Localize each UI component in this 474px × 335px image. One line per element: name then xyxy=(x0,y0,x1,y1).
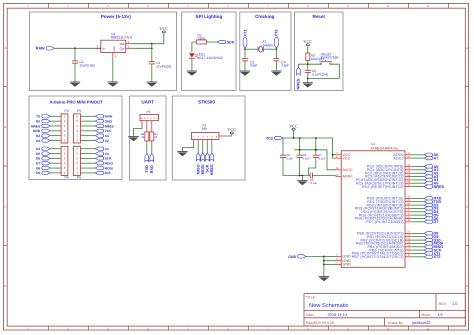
wire P5 to flag xyxy=(81,115,83,117)
wire P2 to R1 xyxy=(151,121,153,132)
pin 14 PB2 (PCINT2/SS/OC1B) xyxy=(361,237,412,242)
pin 17 PB5 (SCK/PCINT5) xyxy=(369,247,411,252)
wire LED to ground xyxy=(191,58,193,71)
pin 4 VCC left xyxy=(336,152,351,157)
net flag D7 mcu xyxy=(424,220,438,224)
header P1 SPI xyxy=(192,124,219,140)
svg-text:A3: A3 xyxy=(105,134,109,138)
ground STK500 xyxy=(177,152,187,157)
wire R2 to SCK flag xyxy=(206,41,217,43)
net flag D6 mcu xyxy=(424,217,438,221)
op-amp U1 ATMEGA48PA-AU chip body xyxy=(341,142,405,267)
junction XT2 node xyxy=(276,48,278,50)
ground below C1 xyxy=(147,82,157,87)
wire flag to P3 xyxy=(50,130,59,132)
pin 15 PB3 (PCINT3/OC2A/MOSI) xyxy=(356,241,412,246)
pin 27 PC4 (ADC4/SDA/PCINT12) xyxy=(356,177,412,182)
ground below LED1 xyxy=(187,71,197,76)
svg-text:P3: P3 xyxy=(65,109,69,113)
svg-text:D7: D7 xyxy=(36,162,40,166)
svg-text:NRES: NRES xyxy=(434,185,445,189)
wire pin 31 to flag xyxy=(412,201,425,203)
wire P5 to flag xyxy=(81,135,83,137)
net flag TX pinout xyxy=(36,115,50,119)
wire pin 29 to flag xyxy=(412,186,425,188)
svg-text:TITLE:: TITLE: xyxy=(306,296,316,300)
pin 11 PD7 (PCINT23/AIN1) xyxy=(366,219,411,224)
wire pin 30 to flag xyxy=(412,197,425,199)
pin 13 PB1 (PCINT1/OC1A) xyxy=(367,234,412,239)
ground UART xyxy=(128,137,138,142)
svg-text:PC6 (RESET/PCINT14): PC6 (RESET/PCINT14) xyxy=(362,185,404,189)
wire P1 to SCK xyxy=(206,140,208,153)
wire XT1 down xyxy=(244,48,246,49)
resistor R1 1k xyxy=(150,132,159,141)
capacitor C2 xyxy=(72,48,95,82)
ground reset xyxy=(303,83,313,88)
net flag VCC mcu xyxy=(266,136,283,140)
svg-text:D9: D9 xyxy=(36,171,40,175)
svg-text:NRES: NRES xyxy=(31,124,41,128)
net flag D3 mcu xyxy=(424,207,438,211)
net flag D5 mcu xyxy=(424,213,438,217)
net flag GND mcu xyxy=(288,255,306,259)
pin 20 AREF left xyxy=(335,174,353,179)
net flag A7 mcu xyxy=(424,156,438,160)
svg-text:D6: D6 xyxy=(36,157,40,161)
net flag A6 mcu xyxy=(424,153,438,157)
net flag RXD mcu xyxy=(424,197,442,201)
capacitor C8 0.1uF xyxy=(280,138,293,176)
junction Out rail xyxy=(151,47,153,49)
wire pin 26 to flag xyxy=(412,176,425,178)
VCC symbol STK500 xyxy=(227,127,236,134)
wire NRES to node xyxy=(297,64,299,67)
net flag XT2 mcu xyxy=(424,255,440,259)
svg-text:NRES: NRES xyxy=(296,78,301,89)
wire flag to P3 xyxy=(50,120,59,122)
wire P2 pin1 to ground xyxy=(134,121,143,137)
svg-text:22pF: 22pF xyxy=(281,64,289,68)
wire bottom to ground xyxy=(307,79,309,83)
net flag NRES mcu xyxy=(424,185,444,189)
svg-text:P4: P4 xyxy=(65,176,69,180)
svg-text:AVCC: AVCC xyxy=(343,168,354,172)
header P4 xyxy=(61,146,69,179)
wire C1 branch xyxy=(151,44,153,62)
net flag A3 pinout xyxy=(95,134,109,138)
svg-text:2018-11-13: 2018-11-13 xyxy=(328,312,348,317)
wire GND vertical xyxy=(323,256,325,276)
wire P5 to flag xyxy=(81,140,83,142)
pin 25 PC2 (ADC2/PCINT10) xyxy=(365,171,412,176)
svg-text:XT1: XT1 xyxy=(242,29,247,37)
svg-text:RAW: RAW xyxy=(105,115,114,119)
net flag D8 pinout xyxy=(36,166,50,170)
svg-text:C: C xyxy=(466,205,468,209)
net flag GND pinout xyxy=(33,129,50,133)
net flag D2 mcu xyxy=(424,203,438,207)
svg-text:HG17-2102SYGC: HG17-2102SYGC xyxy=(197,56,224,60)
svg-text:0.1uF: 0.1uF xyxy=(319,156,326,160)
svg-text:D10: D10 xyxy=(105,171,111,175)
wire crystal left xyxy=(245,48,257,50)
section box Power xyxy=(30,12,177,91)
svg-text:A: A xyxy=(466,46,468,50)
junction node at R3 xyxy=(307,63,309,65)
junction ground stem mcu xyxy=(302,175,304,177)
ground below C3 xyxy=(240,71,250,76)
wire pin 23 to flag xyxy=(412,166,425,168)
svg-text:A1: A1 xyxy=(105,147,109,151)
svg-text:VCC: VCC xyxy=(105,129,113,133)
wire P6 to flag xyxy=(81,162,83,164)
net flag RX pinout xyxy=(36,119,51,123)
svg-text:EasyEDA V5.9.20: EasyEDA V5.9.20 xyxy=(306,321,334,325)
junction C7 top xyxy=(315,137,317,139)
svg-text:D: D xyxy=(4,284,6,288)
svg-text:VCC: VCC xyxy=(159,26,168,31)
resistor R2 330 xyxy=(196,33,206,44)
junction AVCC rail C7 xyxy=(315,149,317,151)
net flag A2 pinout xyxy=(95,139,109,143)
title block xyxy=(304,294,465,327)
junction XT1 node xyxy=(244,48,246,50)
svg-text:Drawn By:: Drawn By: xyxy=(388,321,404,325)
ground mcu rail xyxy=(297,176,307,186)
svg-text:Clocking: Clocking xyxy=(255,14,275,19)
wire TAB output rail xyxy=(131,43,152,45)
pin 30 PD0 (RXD/PCINT16) xyxy=(367,196,412,201)
net flag D7 pinout xyxy=(36,162,50,166)
wire VCC to R3 xyxy=(307,46,309,53)
section box UART xyxy=(129,96,166,180)
ground below C9 xyxy=(271,71,281,76)
wire RAW to regulator input xyxy=(55,47,101,49)
svg-text:MOSI: MOSI xyxy=(105,166,114,170)
svg-text:0.1uF: 0.1uF xyxy=(303,156,310,160)
pin 24 PC1 (ADC1/PCINT9) xyxy=(367,167,412,172)
wire flag to P4 xyxy=(50,153,59,155)
svg-text:P6: P6 xyxy=(77,176,81,180)
svg-text:22uF(226): 22uF(226) xyxy=(156,64,171,68)
net flag A1 mcu xyxy=(424,168,438,172)
LED LED1 xyxy=(189,52,224,59)
wire VCC rail xyxy=(283,137,333,139)
net flag MISO stk500 xyxy=(196,153,201,175)
svg-text:B: B xyxy=(466,125,468,129)
wire flag to P4 xyxy=(50,148,59,150)
svg-text:VCC: VCC xyxy=(303,39,312,44)
wire R1 to RXD flag xyxy=(151,141,153,154)
resistor R3 10k xyxy=(306,53,324,61)
svg-text:VCC: VCC xyxy=(343,156,351,160)
wire pin 7 to flag xyxy=(412,253,425,255)
wire pin 2 to flag xyxy=(412,211,425,213)
net flag D4 mcu xyxy=(424,210,439,214)
section box Reset xyxy=(295,12,344,91)
net flag MOSI stk500 xyxy=(200,153,205,175)
net flag D4 pinout xyxy=(36,147,50,151)
net flag VCC pinout xyxy=(95,129,112,133)
pin 5 GND left xyxy=(336,258,352,263)
pin 2 PD4 (PCINT20/XCK/T0) xyxy=(361,209,411,214)
capacitor C6 0.1uF xyxy=(305,64,328,78)
svg-text:SPI Lighting: SPI Lighting xyxy=(196,14,223,19)
wire node row xyxy=(298,63,320,65)
junction VCC pin4 xyxy=(332,154,334,156)
pin 22 ADC7 xyxy=(393,155,411,160)
wire P6 to flag xyxy=(81,153,83,155)
svg-text:0.1uF(104): 0.1uF(104) xyxy=(312,73,328,77)
wire flag to P4 xyxy=(50,172,59,174)
wire P2 to R4 xyxy=(146,121,148,132)
pin 21 GND left xyxy=(335,262,351,267)
junction C4 bottom xyxy=(299,175,301,177)
wire flag to P4 xyxy=(50,157,59,159)
wire flag to P4 xyxy=(50,167,59,169)
net flag A0 pinout xyxy=(95,152,109,156)
svg-text:Date:: Date: xyxy=(306,313,314,317)
svg-text:P5: P5 xyxy=(77,109,81,113)
svg-text:Out: Out xyxy=(120,47,125,51)
section box Clocking xyxy=(240,12,291,91)
svg-text:New Schematic: New Schematic xyxy=(309,302,349,309)
wire pin 14 to flag xyxy=(412,239,425,241)
wire Out to junction xyxy=(131,47,152,49)
junction on RAW wire at C2 xyxy=(74,47,76,49)
VCC symbol power out xyxy=(159,26,168,33)
svg-text:AREF: AREF xyxy=(343,175,354,179)
wire pin 24 to flag xyxy=(412,169,425,171)
net flag NRES pinout xyxy=(31,124,50,128)
VCC symbol reset xyxy=(303,39,312,46)
svg-text:Power (5-12v): Power (5-12v) xyxy=(101,14,131,19)
svg-text:Reset: Reset xyxy=(312,14,325,19)
capacitor C9 22pF xyxy=(273,49,289,71)
svg-text:SPI: SPI xyxy=(202,127,207,131)
wire XT2 down xyxy=(275,48,277,49)
svg-text:D5: D5 xyxy=(36,152,40,156)
wire to AVCC pin xyxy=(327,150,336,170)
wire P1 to NRES xyxy=(211,140,213,153)
svg-text:A7: A7 xyxy=(434,156,439,160)
section box Arduino PRO MINI PINOUT xyxy=(29,96,122,180)
svg-text:D: D xyxy=(466,284,468,288)
net flag A1 pinout xyxy=(95,147,109,151)
net flag SCK stk500 xyxy=(205,153,210,173)
svg-text:STK500: STK500 xyxy=(198,100,215,105)
pin 3 GND left xyxy=(336,254,352,259)
net flag MOSI pinout xyxy=(95,166,113,170)
svg-text:A0: A0 xyxy=(105,152,109,156)
wire rail to VCC xyxy=(152,34,164,44)
wire P1 to MISO xyxy=(197,140,199,153)
net flag D9 pinout xyxy=(36,171,50,175)
header P2 xyxy=(140,110,159,121)
junction GND pin5 xyxy=(323,260,325,262)
svg-text:GND: GND xyxy=(343,263,352,267)
svg-text:D3: D3 xyxy=(36,139,40,143)
net flag D10 mcu xyxy=(424,238,440,242)
wire R2 to LED xyxy=(192,42,196,53)
capacitor C1 xyxy=(149,61,172,82)
svg-text:VCC: VCC xyxy=(266,136,274,140)
wire P5 to flag xyxy=(81,120,83,122)
net flag A0 mcu xyxy=(424,165,438,169)
net flag SCK mcu xyxy=(424,248,442,252)
net flag A3 mcu xyxy=(424,175,438,179)
junction AVCC rail C4 xyxy=(299,149,301,151)
pin 16 PB4 (PCINT4/MISO) xyxy=(367,244,411,249)
pin 6 VCC left xyxy=(336,155,351,160)
ground below regulator xyxy=(108,82,118,87)
title block Sheet xyxy=(421,312,443,317)
svg-text:PB7 (PCINT7/XTAL2/TOSC2): PB7 (PCINT7/XTAL2/TOSC2) xyxy=(352,255,404,259)
net flag D3 pinout xyxy=(36,139,50,143)
svg-text:ATMEGA48PA-AU: ATMEGA48PA-AU xyxy=(371,146,399,150)
section box SPI Lighting xyxy=(182,12,236,91)
title block REV xyxy=(439,301,458,306)
svg-text:RAW: RAW xyxy=(36,47,45,51)
svg-text:1.0: 1.0 xyxy=(452,301,458,306)
net flag SCK xyxy=(217,40,235,44)
svg-text:NRES: NRES xyxy=(209,164,214,175)
junction bottom rail xyxy=(307,78,309,80)
junction TAB rail xyxy=(151,43,153,45)
svg-text:PD7 (PCINT23/AIN1): PD7 (PCINT23/AIN1) xyxy=(366,220,403,224)
net flag RAW pinout xyxy=(95,115,113,119)
wire pin 12 to flag xyxy=(412,232,425,234)
svg-text:In: In xyxy=(102,46,105,50)
pin 7 PB6 (PCINT6/XTAL1/TOSC1) xyxy=(352,251,412,256)
svg-text:SCK: SCK xyxy=(105,157,113,161)
svg-text:GND: GND xyxy=(33,129,41,133)
pushbutton RESET EG4227568 xyxy=(319,52,338,64)
svg-text:16MHz: 16MHz xyxy=(262,43,273,47)
svg-text:D8: D8 xyxy=(36,166,40,170)
wire pin 13 to flag xyxy=(412,236,425,238)
wire pin 19 to flag xyxy=(412,154,425,156)
wire P1 to MOSI xyxy=(202,140,204,153)
svg-text:22pF: 22pF xyxy=(250,64,258,68)
capacitor C3 22pF xyxy=(242,49,258,71)
svg-text:Sheet:: Sheet: xyxy=(421,313,431,317)
svg-text:XT2: XT2 xyxy=(274,29,279,37)
wire flag to P3 xyxy=(50,115,59,117)
svg-text:UART: UART xyxy=(141,100,154,105)
ground below C2 xyxy=(70,82,80,87)
pin 19 ADC6 xyxy=(393,152,411,157)
wire P6 to flag xyxy=(81,172,83,174)
wire pin 16 to flag xyxy=(412,246,425,248)
wire to VCC pin6 xyxy=(333,155,336,158)
wire AVCC rail xyxy=(294,149,327,151)
net flag RAW xyxy=(36,47,55,51)
pin 1 PD3 (PCINT19/OC2B/INT1) xyxy=(355,206,412,211)
capacitor C5 0.1uF aref xyxy=(310,173,336,186)
junction C4 top xyxy=(299,137,301,139)
wire to GND pin5 xyxy=(324,260,336,262)
pin 10 PD6 (PCINT22/OC0A/AIN0) xyxy=(355,216,412,221)
net flag MISO mcu xyxy=(424,245,443,249)
wire crystal right xyxy=(264,48,276,50)
wire flag to P4 xyxy=(50,162,59,164)
svg-text:A: A xyxy=(4,46,6,50)
wire pin 11 to flag xyxy=(412,221,425,223)
crystal X1 16MHz xyxy=(258,39,273,52)
net flag NRES reset xyxy=(296,67,301,89)
net flag RXD uart xyxy=(149,154,154,174)
pin 28 PC5 (ADC5/SCL/PCINT13) xyxy=(356,181,412,186)
net flag NRES pinout xyxy=(95,124,114,128)
svg-text:P2: P2 xyxy=(147,110,151,114)
svg-text:A2: A2 xyxy=(105,139,109,143)
wire P1 to VCC xyxy=(219,135,232,137)
svg-text:C: C xyxy=(4,205,6,209)
wire flag to P3 xyxy=(50,135,59,137)
VCC symbol mcu xyxy=(289,124,298,131)
wire pin 17 to flag xyxy=(412,249,425,251)
net flag D10 pinout xyxy=(95,171,111,175)
title block Drawn By xyxy=(388,320,431,325)
wire P6 to flag xyxy=(81,157,83,159)
wire pin 1 to flag xyxy=(412,207,425,209)
net flag SCK pinout xyxy=(95,157,112,161)
svg-text:jackkum83: jackkum83 xyxy=(411,320,431,325)
pin 29 PC6 (RESET/PCINT14) xyxy=(362,184,412,189)
svg-text:NRES: NRES xyxy=(105,124,115,128)
resistor R4 1k xyxy=(141,132,149,141)
header P3 xyxy=(61,109,69,143)
pin 12 PB0 (PCINT0/CLKO/ICP1) xyxy=(357,231,412,236)
wire P5 to flag xyxy=(81,125,83,127)
wire flag to P3 xyxy=(50,140,59,142)
net flag D9 mcu xyxy=(424,235,438,239)
wire VCC stem to rail xyxy=(293,131,295,138)
wire pin 28 to flag xyxy=(412,182,425,184)
pin 8 PB7 (PCINT7/XTAL2/TOSC2) xyxy=(352,254,412,259)
net flag D8 mcu xyxy=(424,232,438,236)
svg-text:GND: GND xyxy=(113,46,116,52)
net flag TXD mcu xyxy=(424,200,441,204)
pin 31 PD1 (TXD/PCINT17) xyxy=(367,199,411,204)
wire pin 10 to flag xyxy=(412,218,425,220)
net flag MISO pinout xyxy=(95,162,113,166)
pin 26 PC3 (ADC3/PCINT11) xyxy=(365,174,412,179)
svg-text:XT2: XT2 xyxy=(434,255,441,259)
wire pin 8 to flag xyxy=(412,256,425,258)
capacitor C9 0.1uF xyxy=(297,138,310,176)
wire pin 32 to flag xyxy=(412,204,425,206)
header P5 xyxy=(73,109,81,143)
capacitor C7 0.1uF xyxy=(309,138,327,176)
svg-text:ADC7: ADC7 xyxy=(393,156,403,160)
ground mcu bottom xyxy=(319,277,329,282)
wire R3 to node xyxy=(307,61,309,65)
net flag NRES stk500 xyxy=(209,153,214,175)
wire to GND pin21 xyxy=(324,263,336,265)
svg-text:RXD: RXD xyxy=(149,165,154,173)
svg-text:D4: D4 xyxy=(36,147,40,151)
net flag TXD uart xyxy=(144,154,149,173)
net flag MOSI mcu xyxy=(424,242,443,246)
pin 23 PC0 (ADC0/PCINT8) xyxy=(367,164,412,169)
svg-text:Arduino PRO MINI PINOUT: Arduino PRO MINI PINOUT xyxy=(49,100,103,105)
wire P1 pin1 to ground xyxy=(182,140,193,152)
svg-text:D2: D2 xyxy=(36,134,40,138)
net flag XT1 xyxy=(242,29,247,49)
